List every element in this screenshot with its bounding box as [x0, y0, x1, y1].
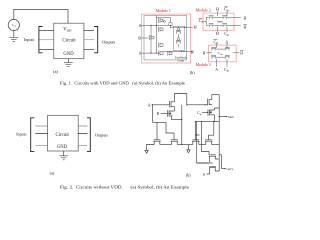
- wire H-bar right: [234, 24, 241, 26]
- wire out node S1: [187, 104, 208, 106]
- svg-text:Module 2: Module 2: [196, 8, 211, 12]
- ground under box: [60, 151, 68, 160]
- wire Hbar right m3: [234, 52, 239, 54]
- FIG2B: [145, 94, 234, 178]
- svg-text:(a): (a): [50, 170, 55, 175]
- svg-text:Sum: Sum: [217, 19, 223, 23]
- svg-text:Sum: Sum: [228, 115, 234, 119]
- svg-text:(b): (b): [190, 70, 195, 75]
- Module 3 red box: [209, 45, 237, 62]
- svg-text:H: H: [203, 51, 206, 55]
- transistor T6: [209, 166, 216, 171]
- svg-text:Circuit: Circuit: [62, 38, 76, 43]
- Module 1 red box: [142, 14, 191, 63]
- svg-text:Module 1: Module 1: [156, 9, 171, 13]
- wire m2 inner: [214, 17, 235, 25]
- FIG1A: [8, 10, 98, 67]
- transistor T5: [209, 155, 216, 159]
- overbar: [224, 6, 228, 8]
- wire P1 source down: [174, 107, 176, 111]
- junction dots module1: [150, 25, 151, 26]
- node A wire: [152, 104, 170, 106]
- node A top wire: [141, 24, 172, 26]
- svg-text:Inputs: Inputs: [16, 131, 27, 136]
- FIG2A: [31, 115, 91, 160]
- wire P1 tophat: [175, 94, 187, 105]
- wire v201: [202, 122, 210, 155]
- output wire mid: [84, 39, 94, 41]
- transistor M4: [159, 43, 164, 48]
- transistor P3 arrow nmos: [208, 109, 215, 116]
- transistor M7: [168, 51, 172, 56]
- wire T5 legs: [210, 159, 219, 162]
- wire P3 source down: [214, 115, 216, 122]
- ground under VS: [9, 30, 18, 41]
- wire T4 gate jog: [209, 122, 214, 140]
- MODULE 2: [196, 7, 247, 37]
- wire Cin-bar left fork: [204, 17, 209, 25]
- Module 1 inner box: [144, 16, 187, 60]
- svg-text:GND: GND: [57, 145, 68, 150]
- wire T4 drain: [212, 144, 220, 146]
- svg-text:Loop: Loop: [178, 59, 185, 63]
- pin Cin-bar top: [226, 11, 228, 16]
- pin Cin bottom: [226, 27, 228, 32]
- svg-text:VDD: VDD: [63, 28, 72, 33]
- input wire mid: [39, 39, 54, 41]
- svg-text:Outputs: Outputs: [95, 133, 108, 138]
- svg-text:H: H: [216, 8, 219, 12]
- svg-text:GND: GND: [63, 52, 74, 57]
- wire T2 drain ext: [188, 144, 192, 146]
- svg-text:Carry: Carry: [226, 167, 234, 171]
- wire bus xA: [152, 105, 154, 123]
- wire P2 down jog: [172, 116, 182, 120]
- transistor M6 pmos: [169, 22, 172, 25]
- svg-text:H: H: [194, 24, 197, 29]
- svg-text:H: H: [240, 51, 243, 55]
- svg-text:(a): (a): [53, 69, 58, 74]
- transistor F2 pmos: [176, 41, 181, 44]
- svg-text:Outputs: Outputs: [102, 40, 115, 45]
- wire T2 gate jog: [166, 122, 174, 140]
- wire v195: [194, 122, 196, 135]
- transistor F1 pmos: [176, 31, 181, 34]
- node A bottom wire: [141, 52, 160, 54]
- svg-text:Inputs: Inputs: [24, 37, 35, 42]
- wire gnd2 stem: [187, 145, 189, 150]
- wire sum out: [219, 116, 226, 118]
- wire bus mid: [155, 16, 157, 54]
- transistor m2BL: [209, 24, 214, 27]
- transistor P1 pass: [170, 101, 175, 108]
- wire H right: [234, 16, 241, 18]
- voltage source VS circle: [8, 19, 19, 30]
- input wire mid: [35, 133, 47, 135]
- output wire mid: [78, 133, 88, 135]
- svg-text:A: A: [225, 40, 228, 44]
- output wires: [84, 31, 94, 50]
- ground arrow 2: [187, 150, 190, 153]
- inputs bracket: [39, 27, 43, 53]
- svg-text:Module 3: Module 3: [196, 63, 211, 67]
- transistor T2: [171, 140, 179, 145]
- wire v196 long: [197, 122, 213, 163]
- wire bus sum: [218, 95, 220, 171]
- wire T6 feed: [197, 162, 210, 164]
- wire P3 drain up: [215, 108, 220, 110]
- transistor M5: [159, 51, 164, 56]
- wire H top out: [171, 26, 193, 28]
- transistor P2: [168, 110, 175, 117]
- pin H top: [217, 11, 219, 16]
- pin A top m3: [226, 44, 228, 48]
- svg-text:A: A: [215, 68, 218, 72]
- transistor m3TL: [211, 47, 216, 50]
- wire T1 source to gnd: [147, 145, 155, 151]
- wire T3 gate jog: [195, 135, 199, 140]
- transistor T4: [205, 140, 213, 145]
- wire P4 tophat: [212, 95, 219, 100]
- wire top rail: [156, 17, 170, 19]
- rail left: [153, 121, 167, 123]
- wire H bottom out: [163, 50, 193, 52]
- svg-text:H: H: [244, 25, 247, 29]
- circuit box: [54, 23, 84, 59]
- svg-text:B: B: [138, 36, 141, 41]
- transistor T3: [192, 140, 200, 145]
- wire H left m3: [206, 52, 210, 54]
- node Cin wire: [202, 111, 208, 113]
- wire feedback vertical: [178, 34, 180, 48]
- wire m3 inner: [211, 49, 235, 57]
- wire P3 arrow glyph: [210, 112, 212, 113]
- pin H bottom: [217, 27, 219, 32]
- ground arrow 1: [145, 150, 148, 153]
- transistor m3BL: [211, 55, 216, 58]
- transistor M3: [150, 35, 155, 40]
- svg-text:A: A: [139, 23, 142, 28]
- outputs bracket: [87, 118, 90, 152]
- circuit box: [48, 115, 79, 151]
- svg-text:H: H: [244, 17, 247, 21]
- transistor T1: [153, 140, 161, 145]
- transistor m2TR: [222, 16, 227, 19]
- node B wire: [161, 112, 168, 114]
- Module 2 red box: [203, 13, 234, 30]
- transistor M2: [159, 27, 164, 32]
- transistor m3BR: [225, 55, 230, 58]
- wire bus left: [150, 25, 152, 53]
- pin A bottom m3: [216, 59, 218, 67]
- pin Cinbar top m3: [216, 44, 218, 48]
- svg-text:A: A: [148, 102, 151, 107]
- rail mid: [195, 121, 219, 123]
- transistor m3TR: [225, 47, 230, 50]
- junction dots fig2b: [152, 104, 153, 105]
- wire T1 gate: [156, 122, 158, 140]
- wire P2 arrow: [169, 113, 171, 114]
- wire carry rail2: [219, 155, 221, 169]
- wire T2 drain: [177, 144, 188, 146]
- node B wire: [142, 37, 149, 39]
- output wires: [78, 126, 88, 145]
- outputs bracket: [94, 27, 98, 53]
- wire bus xB: [181, 105, 183, 145]
- wire M6 drain: [170, 18, 172, 23]
- input wires: [35, 126, 47, 145]
- MODULE 3: [196, 40, 244, 73]
- wire T1-T2: [160, 144, 172, 146]
- svg-text:(b): (b): [186, 173, 191, 178]
- svg-text:A: A: [139, 51, 142, 56]
- wire T6 bottom: [207, 171, 219, 174]
- transistor M1: [159, 18, 164, 23]
- transistor P4 pass sum: [208, 99, 212, 106]
- svg-text:Circuit: Circuit: [56, 133, 70, 138]
- FIG1B: [138, 9, 196, 63]
- pin Cin bottom m3: [226, 59, 228, 67]
- wire T3-T4: [199, 144, 206, 146]
- wire carry out: [221, 168, 224, 170]
- svg-text:H: H: [216, 32, 219, 36]
- svg-text:VS: VS: [12, 24, 16, 29]
- wire VS to VDD pin: [14, 10, 68, 24]
- inputs bracket: [31, 118, 35, 152]
- feedback box: [173, 26, 184, 50]
- ground under box: [64, 59, 73, 67]
- input wires: [39, 31, 54, 50]
- svg-text:H: H: [191, 50, 194, 55]
- transistor m2BR: [222, 24, 227, 27]
- transistor m2TL: [209, 16, 214, 19]
